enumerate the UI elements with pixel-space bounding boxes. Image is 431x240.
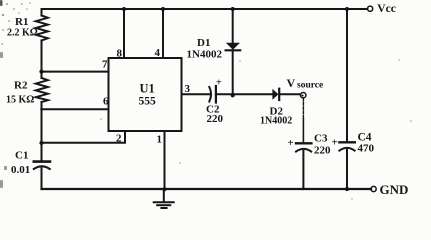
svg-text:2.2 KΩ: 2.2 KΩ [7, 28, 38, 39]
svg-text:U1: U1 [140, 82, 155, 96]
svg-text:1N4002: 1N4002 [260, 116, 292, 127]
svg-text:8: 8 [117, 48, 123, 60]
svg-text:V: V [287, 76, 296, 90]
svg-text:GND: GND [380, 182, 409, 197]
svg-text:1: 1 [157, 134, 163, 146]
svg-text:1N4002: 1N4002 [187, 49, 223, 61]
svg-text:555: 555 [139, 96, 157, 108]
svg-text:D1: D1 [197, 37, 210, 49]
svg-text:+: + [332, 137, 338, 149]
svg-text:+: + [288, 137, 294, 149]
svg-text:220: 220 [314, 145, 331, 157]
svg-text:C3: C3 [314, 133, 328, 145]
svg-text:2: 2 [116, 133, 122, 145]
svg-text:3: 3 [185, 83, 191, 95]
svg-text:6: 6 [103, 96, 109, 108]
svg-text:220: 220 [207, 113, 224, 125]
svg-text:0.01: 0.01 [11, 164, 30, 176]
svg-text:15 KΩ: 15 KΩ [6, 95, 34, 106]
svg-text:R2: R2 [14, 80, 28, 92]
svg-text:+: + [216, 78, 222, 89]
svg-text:4: 4 [155, 47, 161, 59]
svg-text:Vcc: Vcc [377, 3, 396, 15]
svg-text:7: 7 [102, 59, 108, 71]
svg-text:R1: R1 [15, 16, 28, 28]
svg-text:470: 470 [358, 143, 375, 155]
svg-text:C1: C1 [15, 150, 28, 162]
svg-text:source: source [297, 81, 323, 91]
